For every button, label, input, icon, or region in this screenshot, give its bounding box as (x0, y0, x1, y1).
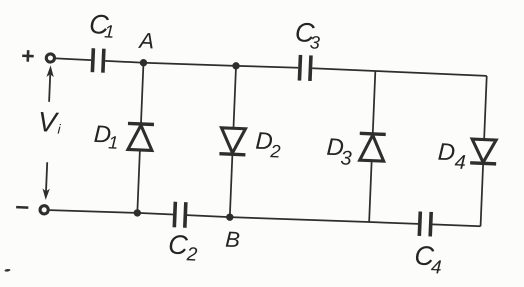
svg-text:2: 2 (185, 244, 198, 265)
svg-text:3: 3 (340, 147, 352, 169)
svg-text:2: 2 (269, 141, 281, 161)
svg-text:1: 1 (108, 132, 119, 152)
svg-text:A: A (137, 28, 155, 54)
svg-text:C: C (168, 230, 189, 261)
svg-text:4: 4 (431, 257, 442, 278)
svg-text:3: 3 (310, 32, 321, 52)
svg-text:4: 4 (454, 151, 466, 173)
svg-text:D: D (437, 139, 455, 167)
svg-text:B: B (225, 227, 241, 253)
svg-text:1: 1 (104, 21, 115, 41)
